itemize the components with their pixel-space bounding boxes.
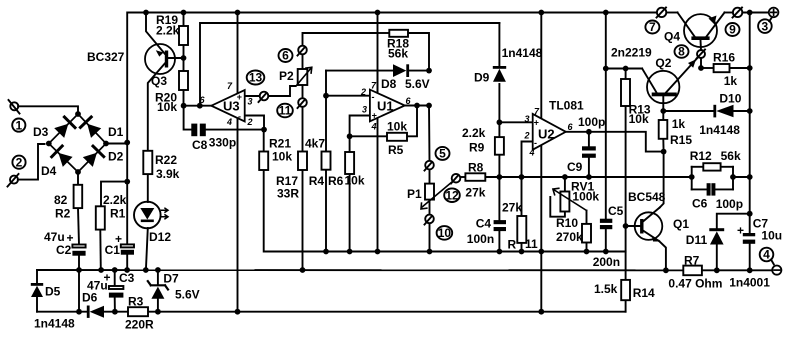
wire RV1 wiper to R10 <box>586 211 588 224</box>
svg-text:C5: C5 <box>608 204 624 218</box>
svg-text:4: 4 <box>226 117 232 127</box>
wire R22 to D12 <box>147 174 149 202</box>
diode D4 bridge bottom-left <box>52 146 73 167</box>
svg-text:R8: R8 <box>468 161 484 175</box>
svg-text:1n4148: 1n4148 <box>699 123 740 137</box>
wire U3 pin7 from rail1 <box>237 13 239 94</box>
wire terminal8 to R16 <box>700 58 702 68</box>
svg-text:+: + <box>237 92 243 102</box>
diode D2 bridge bottom-right <box>83 146 104 167</box>
svg-text:5: 5 <box>439 147 446 161</box>
wire U1 out down to terminal 5 <box>428 106 431 162</box>
junction bus dots <box>519 174 753 180</box>
svg-text:4: 4 <box>371 122 377 132</box>
wire rail1 segment 4 <box>742 12 769 14</box>
wire U2 pin4 <box>540 145 542 312</box>
wire Q1 base <box>626 225 641 227</box>
resistor R6 <box>345 152 354 174</box>
svg-text:D7: D7 <box>163 272 179 286</box>
terminal 11 circle <box>298 98 307 107</box>
junction C9 top <box>586 129 592 135</box>
wire U1 pin4 <box>377 118 379 252</box>
resistor R19 <box>179 26 188 45</box>
svg-text:+: + <box>115 232 122 246</box>
svg-text:C9: C9 <box>567 160 583 174</box>
wire R4 column <box>325 170 327 252</box>
wire terminal 11 down to 4k7 <box>302 107 304 152</box>
junction U1 pin3/R5/R6 <box>347 133 353 139</box>
resistor R22 <box>143 151 152 174</box>
transistor Q2 <box>647 71 679 103</box>
svg-text:11: 11 <box>525 237 538 251</box>
terminal 10 circle <box>425 215 434 224</box>
svg-text:4: 4 <box>763 248 770 262</box>
wire rail1 segment 3 <box>725 12 734 14</box>
svg-text:10: 10 <box>438 226 452 240</box>
wire Q3 emitter to rail1 <box>146 13 165 54</box>
svg-text:220R: 220R <box>125 318 154 332</box>
wire R14 bottom to rail <box>625 300 627 312</box>
wire R20 bottom <box>183 90 185 106</box>
resistor R18 <box>389 30 408 37</box>
capacitor C5 <box>600 219 612 230</box>
wire R5 left <box>350 135 387 137</box>
terminal 7 circle <box>657 8 666 17</box>
terminal 13 circle <box>260 92 269 101</box>
wire R1 top elbow <box>101 182 127 207</box>
wire R8 right <box>485 176 499 178</box>
svg-text:U1: U1 <box>377 99 394 114</box>
op-amp U3 <box>211 90 244 122</box>
wire y251 bus <box>264 170 626 252</box>
svg-text:2.2k: 2.2k <box>462 126 486 140</box>
svg-text:330p: 330p <box>209 136 236 150</box>
svg-text:5.6V: 5.6V <box>405 77 430 91</box>
resistor R1 <box>96 206 105 229</box>
wire Q3 base <box>168 57 184 59</box>
svg-text:56k: 56k <box>388 47 408 61</box>
resistor R4 <box>322 152 331 170</box>
capacitor C1 <box>121 244 134 254</box>
op-amp U1 <box>370 90 405 122</box>
wire input terminal1 <box>18 106 78 114</box>
junction pin2/C8/R21 node <box>261 127 267 133</box>
wire loop right vertical <box>732 167 734 190</box>
resistor R11 <box>517 216 526 243</box>
svg-text:U2: U2 <box>538 127 555 142</box>
svg-text:3: 3 <box>525 114 530 124</box>
wire R10 bottom <box>586 243 588 252</box>
svg-text:TL081: TL081 <box>549 99 584 113</box>
svg-text:R14: R14 <box>633 286 655 300</box>
svg-text:47u: 47u <box>44 230 65 244</box>
svg-text:D12: D12 <box>149 230 171 244</box>
svg-text:Q1: Q1 <box>673 217 689 231</box>
svg-text:3: 3 <box>762 19 769 33</box>
svg-text:6: 6 <box>282 49 289 63</box>
junction R1 elbow <box>124 179 130 185</box>
wire R11 bottom <box>521 243 523 252</box>
terminal 5 circle <box>425 161 434 170</box>
svg-text:2: 2 <box>524 131 530 141</box>
wire Q4 collector diagonal right <box>707 13 725 37</box>
svg-text:R15: R15 <box>670 133 692 147</box>
junction bridge right <box>124 140 130 146</box>
transistor Q1 <box>635 212 663 240</box>
diode D5 <box>31 283 43 297</box>
svg-text:D11: D11 <box>686 233 708 247</box>
svg-text:1n4148: 1n4148 <box>502 46 543 60</box>
label circle 3 <box>758 19 772 33</box>
junction rail270 dots <box>76 267 305 273</box>
wire rail312 segments <box>37 311 88 313</box>
svg-text:1k: 1k <box>672 117 686 131</box>
wire U2 pin2 elbow <box>522 142 533 178</box>
wire D9 column <box>498 23 500 66</box>
svg-text:2: 2 <box>16 155 23 169</box>
wire RV1 bottom rheostat link <box>550 197 565 217</box>
terminal input 2 <box>10 176 18 184</box>
wire R19 top <box>183 13 185 27</box>
svg-text:100n: 100n <box>467 232 494 246</box>
junction drive node R15 bottom <box>661 149 667 155</box>
capacitor C3 <box>109 286 124 298</box>
svg-text:R16: R16 <box>713 51 735 65</box>
wire U1 pin2 <box>326 95 370 97</box>
svg-text:Q3: Q3 <box>151 74 167 88</box>
svg-text:R4: R4 <box>309 174 325 188</box>
label circle 2 <box>12 156 25 169</box>
terminal input 1 <box>10 102 18 110</box>
svg-text:27k: 27k <box>465 186 485 200</box>
capacitor C8 <box>191 124 206 137</box>
junction D8 right <box>426 68 432 74</box>
junction U1 pin2 node <box>323 93 329 99</box>
wire R11 top <box>521 177 523 216</box>
svg-text:R6: R6 <box>328 174 344 188</box>
svg-text:P2: P2 <box>279 69 294 83</box>
svg-text:10u: 10u <box>761 229 782 243</box>
wire Q2 emitter diagonal to terminal 8 <box>666 57 698 93</box>
junction rail1 dots <box>143 10 753 16</box>
wire R2 to C2 <box>78 208 79 244</box>
svg-text:R9: R9 <box>469 141 485 155</box>
wire U3 pin3 to terminal 13 <box>245 95 260 97</box>
wire rail2 <box>200 23 499 105</box>
wire RV1 top <box>564 177 566 192</box>
junction Q3 base node <box>181 55 187 61</box>
svg-text:R: R <box>508 238 517 252</box>
svg-text:D5: D5 <box>45 285 61 299</box>
svg-text:C8: C8 <box>192 138 208 152</box>
wire Q4 base <box>700 40 703 50</box>
junction D10 right <box>747 108 753 114</box>
svg-text:100p: 100p <box>578 115 605 129</box>
junction Q1 base node <box>623 223 629 229</box>
wire drive node down to Q1 collector <box>660 152 664 208</box>
terminal 6 circle <box>298 46 307 55</box>
svg-text:100p: 100p <box>716 197 743 211</box>
wire U1 pin3 <box>350 116 370 153</box>
capacitor C4 <box>494 220 506 231</box>
svg-text:P1: P1 <box>407 187 422 201</box>
resistor R2 <box>74 185 83 208</box>
diode D3 bridge top-left <box>54 117 75 138</box>
svg-text:D2: D2 <box>108 150 124 164</box>
junction R16 right <box>747 65 753 71</box>
led D12 <box>134 202 161 229</box>
diode D11 <box>709 228 724 244</box>
svg-text:27k: 27k <box>502 201 522 215</box>
wire pot P2 wiper <box>268 86 295 96</box>
svg-text:5.6V: 5.6V <box>175 288 200 302</box>
wire Q3 collector drop <box>148 64 165 151</box>
svg-text:7: 7 <box>649 20 656 34</box>
junction Q2 base wire left node <box>603 66 609 72</box>
svg-text:2.2k: 2.2k <box>156 24 180 38</box>
svg-text:R1: R1 <box>110 207 126 221</box>
svg-text:1.5k: 1.5k <box>594 282 618 296</box>
svg-text:1n4001: 1n4001 <box>729 276 770 290</box>
wire feedback bus y177 <box>499 176 691 178</box>
svg-text:+: + <box>372 111 378 121</box>
svg-text:+: + <box>534 117 540 127</box>
svg-text:R3: R3 <box>128 295 144 309</box>
wire Q1 emitter diagonal <box>643 231 659 242</box>
wire bridge bottom to R2 <box>77 172 79 185</box>
junction y251 dots <box>323 249 609 255</box>
pot P2 <box>298 69 308 85</box>
svg-text:10k: 10k <box>272 150 292 164</box>
wire U2 pin7 <box>540 13 542 119</box>
label circle 10 <box>437 226 453 240</box>
svg-text:2: 2 <box>247 117 253 127</box>
svg-text:2: 2 <box>360 87 366 97</box>
wire D11 bottom <box>716 245 718 270</box>
wire P1 column <box>429 169 431 183</box>
resistor R7 <box>683 266 702 276</box>
label circle 1 <box>12 119 25 132</box>
resistor R14 <box>621 280 630 300</box>
label circle 6 <box>279 49 293 62</box>
label circle 7 <box>645 21 659 34</box>
svg-text:10k: 10k <box>345 174 365 188</box>
svg-text:4: 4 <box>529 148 535 158</box>
svg-text:0.47 Ohm: 0.47 Ohm <box>668 277 722 291</box>
svg-text:-: - <box>372 92 375 102</box>
svg-text:10k: 10k <box>157 100 177 114</box>
wire D12 to rail270 <box>146 228 148 270</box>
wire U1 output <box>405 105 429 107</box>
terminal 9 circle <box>733 8 742 17</box>
wire D7 column <box>157 270 159 284</box>
svg-text:BC548: BC548 <box>628 190 666 204</box>
terminal 12 circle <box>452 174 461 183</box>
junction R8 right node <box>497 174 503 180</box>
label circle 12 <box>444 188 460 202</box>
resistor R13 <box>621 79 630 106</box>
wire U2 output <box>566 132 664 152</box>
resistor 4k7 column <box>298 152 307 171</box>
svg-text:13: 13 <box>249 71 263 85</box>
svg-text:R21: R21 <box>269 137 291 151</box>
wire 4k7 bottom to rail270 <box>302 170 304 270</box>
wire C5 column <box>605 13 607 219</box>
wire R6 column <box>349 174 351 252</box>
wire C3 column <box>114 270 116 286</box>
junction Q2 collector node <box>660 108 666 114</box>
pot P1 <box>425 184 434 200</box>
wire R13 top stub <box>625 69 627 80</box>
resistor R12 <box>703 163 720 170</box>
transistor Q3 <box>145 44 175 74</box>
label circle 11 <box>277 104 293 118</box>
wire Q2 collector down <box>662 96 664 120</box>
label circle 9 <box>726 23 740 36</box>
svg-text:R2: R2 <box>55 207 71 221</box>
wire U3 pin4 down <box>237 118 239 312</box>
wire P1 wiper to R8 <box>460 176 465 178</box>
svg-text:3.9k: 3.9k <box>156 167 180 181</box>
wire R19 bottom to R20 top <box>183 45 185 71</box>
wire R18 right elbow <box>408 33 429 71</box>
terminal minus output <box>772 266 781 275</box>
wire loop bottom branch <box>692 188 707 190</box>
wire Q4 emitter diagonal left <box>678 13 695 37</box>
svg-text:100k: 100k <box>572 190 599 204</box>
wire loop top branch <box>692 166 704 168</box>
junction R13 top <box>623 66 629 72</box>
svg-text:1k: 1k <box>724 74 738 88</box>
terminal 8 circle <box>697 50 705 58</box>
svg-text:Q4: Q4 <box>664 30 680 44</box>
svg-text:R22: R22 <box>155 153 177 167</box>
wire C9 column <box>588 132 590 147</box>
svg-text:3: 3 <box>362 105 367 115</box>
svg-text:33R: 33R <box>277 187 299 201</box>
svg-text:C2: C2 <box>56 243 72 257</box>
wire loop left vertical <box>691 167 693 190</box>
bridge frame <box>49 114 106 172</box>
resistor R10 <box>582 224 591 243</box>
junction bridge nodes <box>46 111 109 175</box>
wire U2 pin3 <box>499 121 532 123</box>
diode D8 <box>393 64 409 77</box>
wire D10 right <box>734 110 750 112</box>
wire U1 pin7 <box>377 71 379 93</box>
wire R13 bottom long vertical <box>625 106 627 280</box>
resistor R5 <box>387 133 407 141</box>
svg-text:Q2: Q2 <box>655 56 671 70</box>
svg-text:C4: C4 <box>476 217 492 231</box>
svg-text:4k7: 4k7 <box>305 137 325 151</box>
svg-text:10k: 10k <box>387 120 407 134</box>
junction rail312 dots <box>76 309 544 315</box>
resistor R8 <box>465 173 485 181</box>
wire Q2 base diagonal <box>642 69 656 93</box>
junction R16 left node <box>698 65 704 71</box>
svg-text:1: 1 <box>15 118 22 132</box>
svg-text:10k: 10k <box>629 112 649 126</box>
svg-text:2.2k: 2.2k <box>103 193 127 207</box>
wire U1 pin2 elbow <box>325 71 327 152</box>
pot RV1 <box>560 192 569 212</box>
svg-text:200n: 200n <box>593 255 620 269</box>
wire C2 column to rails <box>78 256 80 312</box>
wire R18 node vertical <box>377 13 379 94</box>
wire D10 left <box>663 110 714 112</box>
diode D6 <box>87 306 104 318</box>
transistor Q4 <box>684 14 717 47</box>
resistor R20 <box>179 71 188 90</box>
svg-text:9: 9 <box>729 23 736 37</box>
svg-text:270k: 270k <box>556 230 583 244</box>
svg-text:11: 11 <box>279 104 292 118</box>
junction U1 output dots <box>414 103 432 109</box>
resistor R21 <box>259 152 268 171</box>
svg-text:D10: D10 <box>719 92 741 106</box>
junction D11 bottom <box>714 267 720 273</box>
wire P2 sections <box>302 54 304 69</box>
wire bridge right out <box>106 143 127 145</box>
resistor R15 <box>659 120 668 139</box>
wire U3 output <box>184 105 212 107</box>
capacitor C6 <box>707 183 716 195</box>
wire D8 anode from U1 pin2 node <box>326 70 393 72</box>
svg-text:D8: D8 <box>381 77 397 91</box>
wire D11 top <box>717 214 750 229</box>
wire rail1 top supply <box>127 13 657 143</box>
svg-text:56k: 56k <box>721 149 741 163</box>
capacitor C2 <box>72 245 85 256</box>
svg-text:3: 3 <box>248 97 253 107</box>
label circle 13 <box>247 71 265 85</box>
wire rail270 right of R7 <box>702 269 773 271</box>
wire R15 bottom <box>662 139 664 152</box>
zener D7 <box>148 281 168 299</box>
svg-text:D1: D1 <box>108 125 124 139</box>
svg-text:R12: R12 <box>690 149 712 163</box>
svg-text:BC327: BC327 <box>87 50 125 64</box>
op-amp U2 <box>533 114 566 150</box>
capacitor C9 <box>582 146 596 158</box>
svg-text:82: 82 <box>54 193 68 207</box>
wire U3 pin2 elbow <box>245 116 264 130</box>
svg-text:+: + <box>737 224 744 238</box>
wire input terminal2 <box>18 144 45 180</box>
svg-text:C3: C3 <box>119 271 135 285</box>
svg-text:D6: D6 <box>82 291 98 305</box>
svg-text:8: 8 <box>678 45 685 59</box>
svg-text:D4: D4 <box>41 164 57 178</box>
junction R9 top node <box>497 119 503 125</box>
svg-text:2n2219: 2n2219 <box>611 46 652 60</box>
wire C8 elbow <box>184 106 191 130</box>
wire rail270 left of R7 <box>37 269 683 271</box>
svg-text:12: 12 <box>445 188 459 202</box>
wire R5 right elbow <box>407 106 417 137</box>
junction Q1 emitter rail <box>663 267 669 273</box>
wire D8 cathode <box>409 70 429 72</box>
wire Q1 emitter down <box>659 241 666 270</box>
svg-text:R10: R10 <box>556 216 578 230</box>
label circle 8 <box>675 45 689 58</box>
svg-text:R7: R7 <box>684 254 700 268</box>
wire output column x750 <box>749 13 751 234</box>
diode D10 <box>713 105 733 118</box>
wire rail1 segment 2 <box>666 12 677 14</box>
wire R1 bottom <box>99 230 102 270</box>
